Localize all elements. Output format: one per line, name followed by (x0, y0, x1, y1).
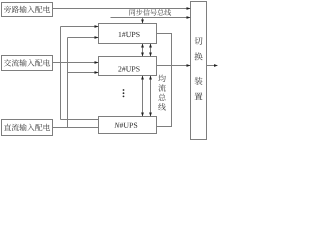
wire 2#UPS output to switching device (157, 65, 191, 67)
box N#UPS (99, 117, 157, 134)
wire output bus (157, 34, 172, 127)
box switching device 切换装置 (191, 2, 207, 140)
label 1#UPS (119, 32, 140, 37)
ellipsis dots between 2#UPS and N#UPS (123, 89, 125, 91)
box 1#UPS (99, 24, 157, 44)
wire switching device output to load (207, 65, 215, 67)
wire AC feed into 1#UPS (61, 26, 99, 28)
wire sync bus drop into 1#UPS (142, 18, 144, 24)
wire sync signal bus 同步信号总线 (111, 17, 191, 19)
wire DC feed into N#UPS (53, 127, 99, 129)
label 直流输入配电 DC input distribution (4, 124, 50, 131)
box bypass input distribution 旁路输入配电 (2, 3, 53, 17)
wire bypass feed to switching device (53, 8, 191, 10)
wire DC bus vertical (67, 38, 69, 128)
label 旁路输入配电 bypass input distribution (4, 6, 50, 13)
wire DC feed into 2#UPS (68, 72, 99, 74)
wire AC feed into N#UPS (61, 119, 99, 121)
label N#UPS (114, 123, 137, 128)
wire sync bus between 1#UPS and 2#UPS (142, 44, 144, 57)
wire sync bus between 2#UPS and N#UPS (142, 76, 144, 117)
wire AC bus vertical (60, 27, 62, 120)
label 均流总线 load-share bus (158, 75, 166, 111)
label 切换装置 switching device (194, 37, 202, 100)
label 交流输入配电 AC input distribution (4, 59, 50, 66)
label 同步信号总线 sync signal bus (129, 9, 171, 16)
wire load-share bus between 2#UPS and N#UPS (150, 76, 152, 117)
box AC input distribution 交流输入配电 (2, 56, 53, 71)
box 2#UPS (99, 57, 157, 76)
wire load-share bus between 1#UPS and 2#UPS (150, 44, 152, 57)
label 2#UPS (118, 66, 139, 71)
box DC input distribution 直流输入配电 (2, 120, 53, 136)
wire DC feed into 1#UPS (68, 37, 99, 39)
wire AC feed into 2#UPS (53, 62, 99, 64)
